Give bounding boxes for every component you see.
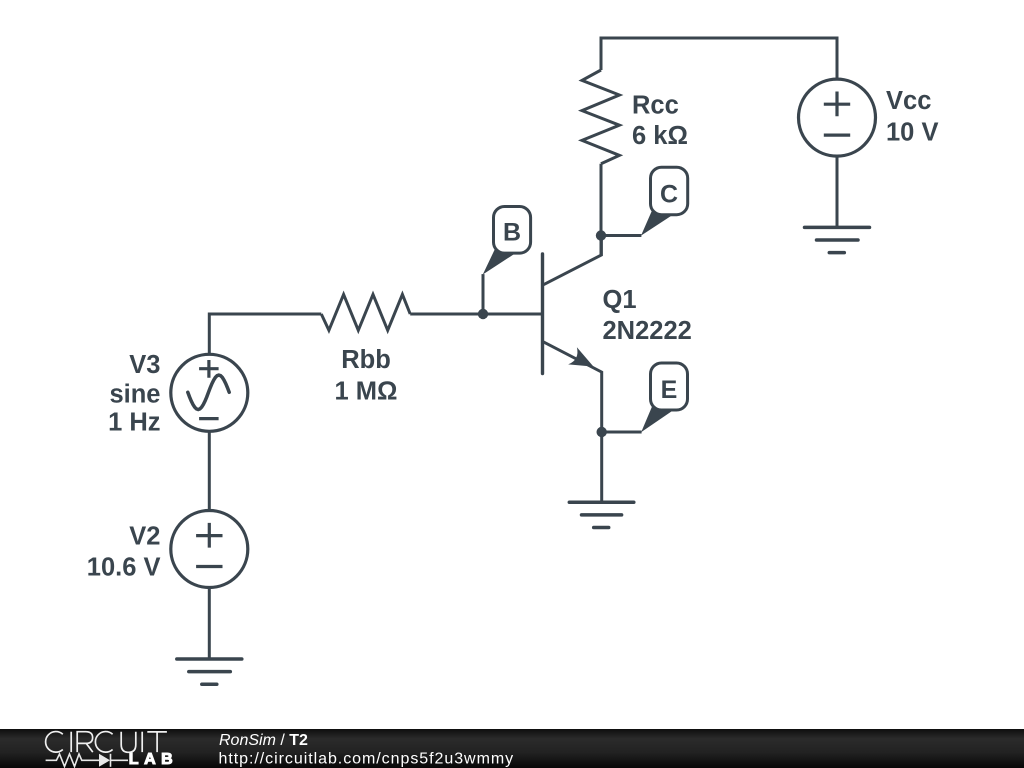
wire Rbb to Q1 base	[410, 313, 542, 316]
svg-text:LAB: LAB	[129, 751, 178, 768]
emitter arrowhead	[568, 347, 593, 366]
tag box E	[651, 363, 688, 410]
ground under Vcc	[805, 227, 870, 252]
svg-text:Rcc: Rcc	[632, 92, 679, 120]
logo CIRCUIT	[46, 732, 167, 753]
wire E tag stub	[602, 431, 642, 434]
svg-text:sine: sine	[109, 380, 160, 408]
tag box C	[651, 167, 688, 215]
wire Rcc bottom to collector corner	[600, 164, 603, 255]
svg-text:Rbb: Rbb	[341, 346, 391, 374]
svg-text:6 kΩ: 6 kΩ	[632, 122, 688, 150]
resistor Rbb	[321, 294, 410, 330]
wire C tag stub	[601, 234, 641, 237]
transistor Q1 collector lead	[544, 236, 602, 285]
ground under V2	[177, 659, 242, 684]
node dot collector C	[596, 230, 606, 240]
tag pointer B	[483, 247, 515, 275]
logo resistor-diode squiggle	[46, 754, 128, 767]
resistor Rcc	[582, 70, 619, 164]
node dot emitter E	[597, 427, 607, 437]
tag pointer C	[641, 208, 673, 235]
svg-text:10 V: 10 V	[886, 119, 938, 147]
svg-text:V2: V2	[129, 523, 160, 551]
svg-text:10.6 V: 10.6 V	[87, 554, 161, 582]
svg-text:1 MΩ: 1 MΩ	[335, 377, 398, 405]
footer bar	[0, 729, 1024, 768]
transistor Q1 emitter lead	[544, 342, 602, 502]
logo diode triangle	[99, 754, 110, 767]
svg-text:Q1: Q1	[603, 286, 637, 314]
ground under emitter	[569, 502, 634, 527]
svg-text:http://circuitlab.com/cnps5f2u: http://circuitlab.com/cnps5f2u3wmmy	[219, 750, 515, 767]
wire top rail from Rcc top to Vcc and down to ground	[601, 38, 837, 226]
node dot base junction	[478, 309, 488, 319]
svg-text:1 Hz: 1 Hz	[108, 409, 160, 437]
svg-text:C: C	[660, 180, 678, 208]
voltage source Vcc	[799, 79, 876, 156]
tag box B	[494, 207, 531, 254]
svg-text:B: B	[503, 219, 521, 247]
voltage source V2	[171, 511, 248, 588]
svg-text:E: E	[661, 376, 678, 404]
wire left rail: V3/V2 stack up to base corner and right to Rbb	[209, 314, 321, 658]
svg-text:V3: V3	[129, 351, 160, 379]
svg-text:2N2222: 2N2222	[603, 317, 692, 345]
tag pointer E	[641, 404, 672, 432]
voltage source V3 (sine)	[171, 354, 248, 431]
svg-text:Vcc: Vcc	[886, 87, 931, 115]
wire B tag stub	[482, 274, 485, 314]
svg-text:RonSim / T2: RonSim / T2	[219, 732, 308, 749]
transistor Q1 base bar	[541, 254, 544, 374]
